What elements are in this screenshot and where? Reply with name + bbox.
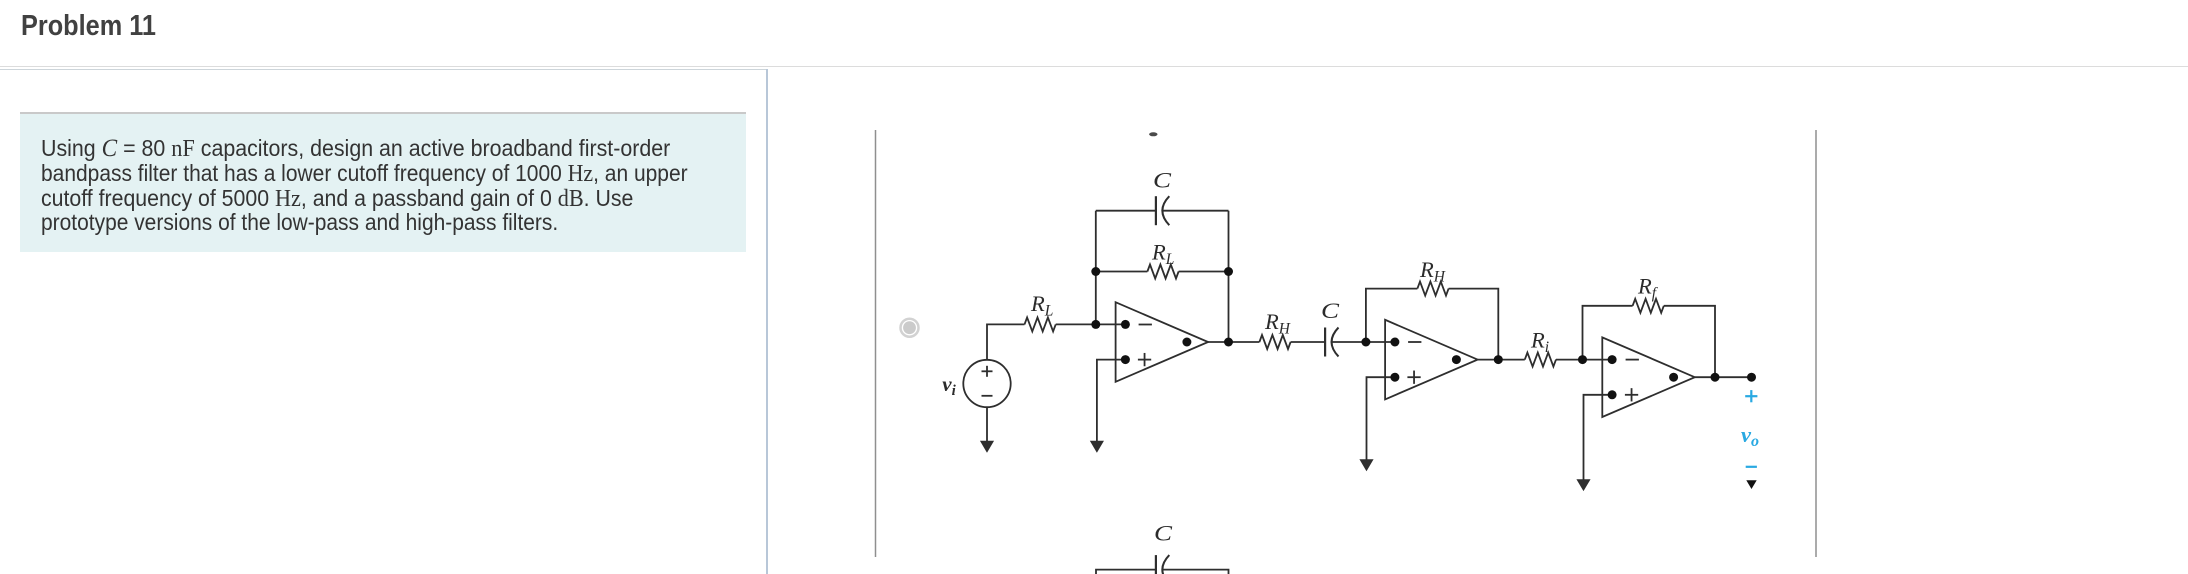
wire feedback right down to output node: [1228, 211, 1230, 342]
wire capacitor to node B: [1332, 341, 1395, 343]
stray arrow tip from cropped figure above: [1149, 132, 1157, 136]
source vi circle: [963, 360, 1010, 407]
output terminal dot: [1747, 373, 1756, 382]
op-amp3 plus sign: [1625, 394, 1638, 396]
vertical divider: [766, 69, 768, 574]
svg-text:RH: RH: [1419, 257, 1446, 286]
op-amp1 minus pin dot: [1121, 320, 1130, 329]
full-width rule: [0, 66, 2188, 68]
op-amp2 output dot: [1452, 355, 1461, 364]
radio button: [901, 319, 919, 337]
problem statement box: [20, 112, 746, 253]
wire feedback Rf down to output node: [1664, 306, 1715, 377]
wire feedback RH down to output node: [1449, 289, 1499, 360]
svg-text:RL: RL: [1030, 291, 1053, 320]
source minus sign: [982, 395, 993, 397]
figure right border: [1815, 130, 1817, 557]
node A dot: [1091, 320, 1100, 329]
svg-text:C: C: [1154, 521, 1173, 546]
capacitor C plate left: [1155, 196, 1157, 225]
wire RL to op-amp 1 minus pin: [1056, 323, 1126, 325]
op-amp2 plus pin dot: [1390, 373, 1399, 382]
capacitor C top row left wire: [1096, 210, 1156, 212]
wire node A up to feedback: [1095, 211, 1097, 325]
svg-text:vi: vi: [942, 372, 956, 399]
svg-text:Ri: Ri: [1530, 328, 1549, 357]
op-amp2 output node dot: [1494, 355, 1503, 364]
op-amp2 plus sign: [1407, 376, 1420, 378]
feedback RL row right wire: [1179, 271, 1229, 273]
svg-text:C: C: [1321, 298, 1340, 323]
resistor RL feedback zigzag: [1147, 265, 1178, 279]
capacitor C series plate curved: [1332, 328, 1339, 357]
op-amp U2 triangle: [1385, 320, 1478, 400]
op-amp U1 triangle: [1116, 302, 1209, 382]
op-amp1 plus pin dot: [1121, 355, 1130, 364]
svg-text:C: C: [1153, 168, 1172, 193]
bottom figure wire right: [1162, 570, 1228, 574]
op-amp1 plus sign: [1138, 359, 1151, 361]
op-amp3 minus pin dot: [1608, 355, 1617, 364]
resistor RL series zigzag: [1025, 317, 1056, 331]
op-amp U3 triangle: [1602, 337, 1695, 417]
wire vi top to input line: [987, 324, 1025, 359]
svg-text:RL: RL: [1151, 240, 1174, 269]
output plus sign cyan: [1745, 390, 1757, 402]
heading Problem 11: [21, 10, 156, 43]
capacitor C series plate left: [1324, 328, 1326, 357]
op-amp1 output dot: [1182, 338, 1191, 347]
figure left border: [875, 130, 877, 557]
op-amp2 minus sign: [1408, 341, 1421, 343]
ground arrow stage1: [1091, 442, 1102, 451]
svg-text:vo: vo: [1741, 422, 1759, 450]
source plus sign: [982, 370, 993, 372]
svg-text:RH: RH: [1264, 309, 1291, 338]
op-amp3 output dot: [1669, 373, 1678, 382]
node B dot: [1361, 338, 1370, 347]
left column top rule: [0, 69, 768, 71]
ground arrow vi: [982, 442, 993, 451]
feedback RL row left wire: [1096, 271, 1148, 273]
op-amp3 minus sign: [1626, 359, 1639, 361]
node D dot: [1578, 355, 1587, 364]
op-amp U3 plus input wire to ground: [1584, 395, 1613, 481]
output minus sign cyan: [1746, 466, 1757, 468]
resistor RH feedback zigzag: [1417, 282, 1448, 296]
op-amp3 plus pin dot: [1608, 390, 1617, 399]
feedback RL left node dot: [1091, 267, 1100, 276]
capacitor C top row right wire: [1162, 210, 1228, 212]
wire node D up to feedback Rf: [1583, 306, 1633, 360]
capacitor C plate curved: [1162, 196, 1169, 225]
resistor Ri series zigzag: [1525, 353, 1556, 367]
op-amp3 output node dot: [1711, 373, 1720, 382]
ground wire vi: [986, 407, 988, 442]
op-amp U1 plus input wire to ground: [1097, 360, 1126, 443]
wire node B up to feedback RH: [1366, 289, 1418, 342]
resistor Rf feedback zigzag: [1633, 299, 1664, 313]
bottom capacitor C plate curved: [1162, 555, 1169, 574]
ground arrow stage3: [1578, 480, 1589, 489]
wire op-amp1 output: [1208, 341, 1259, 343]
feedback RL right node dot: [1224, 267, 1233, 276]
bottom figure wire: [1096, 570, 1156, 574]
op-amp2 minus pin dot: [1390, 338, 1399, 347]
wire Ri to op-amp 3 minus pin: [1556, 359, 1612, 361]
bottom capacitor C plate left: [1155, 555, 1157, 574]
wire RH to capacitor C series: [1291, 341, 1326, 343]
ground arrow stage2: [1361, 460, 1372, 469]
svg-text:Rf: Rf: [1637, 274, 1659, 303]
resistor RH series zigzag: [1259, 335, 1290, 349]
wire op-amp2 output: [1478, 359, 1525, 361]
op-amp1 output node dot: [1224, 338, 1233, 347]
wire op-amp3 output to terminal: [1695, 376, 1752, 378]
output ground arrowhead: [1746, 480, 1756, 489]
op-amp1 minus sign: [1139, 324, 1152, 326]
op-amp U2 plus input wire to ground: [1367, 377, 1395, 461]
